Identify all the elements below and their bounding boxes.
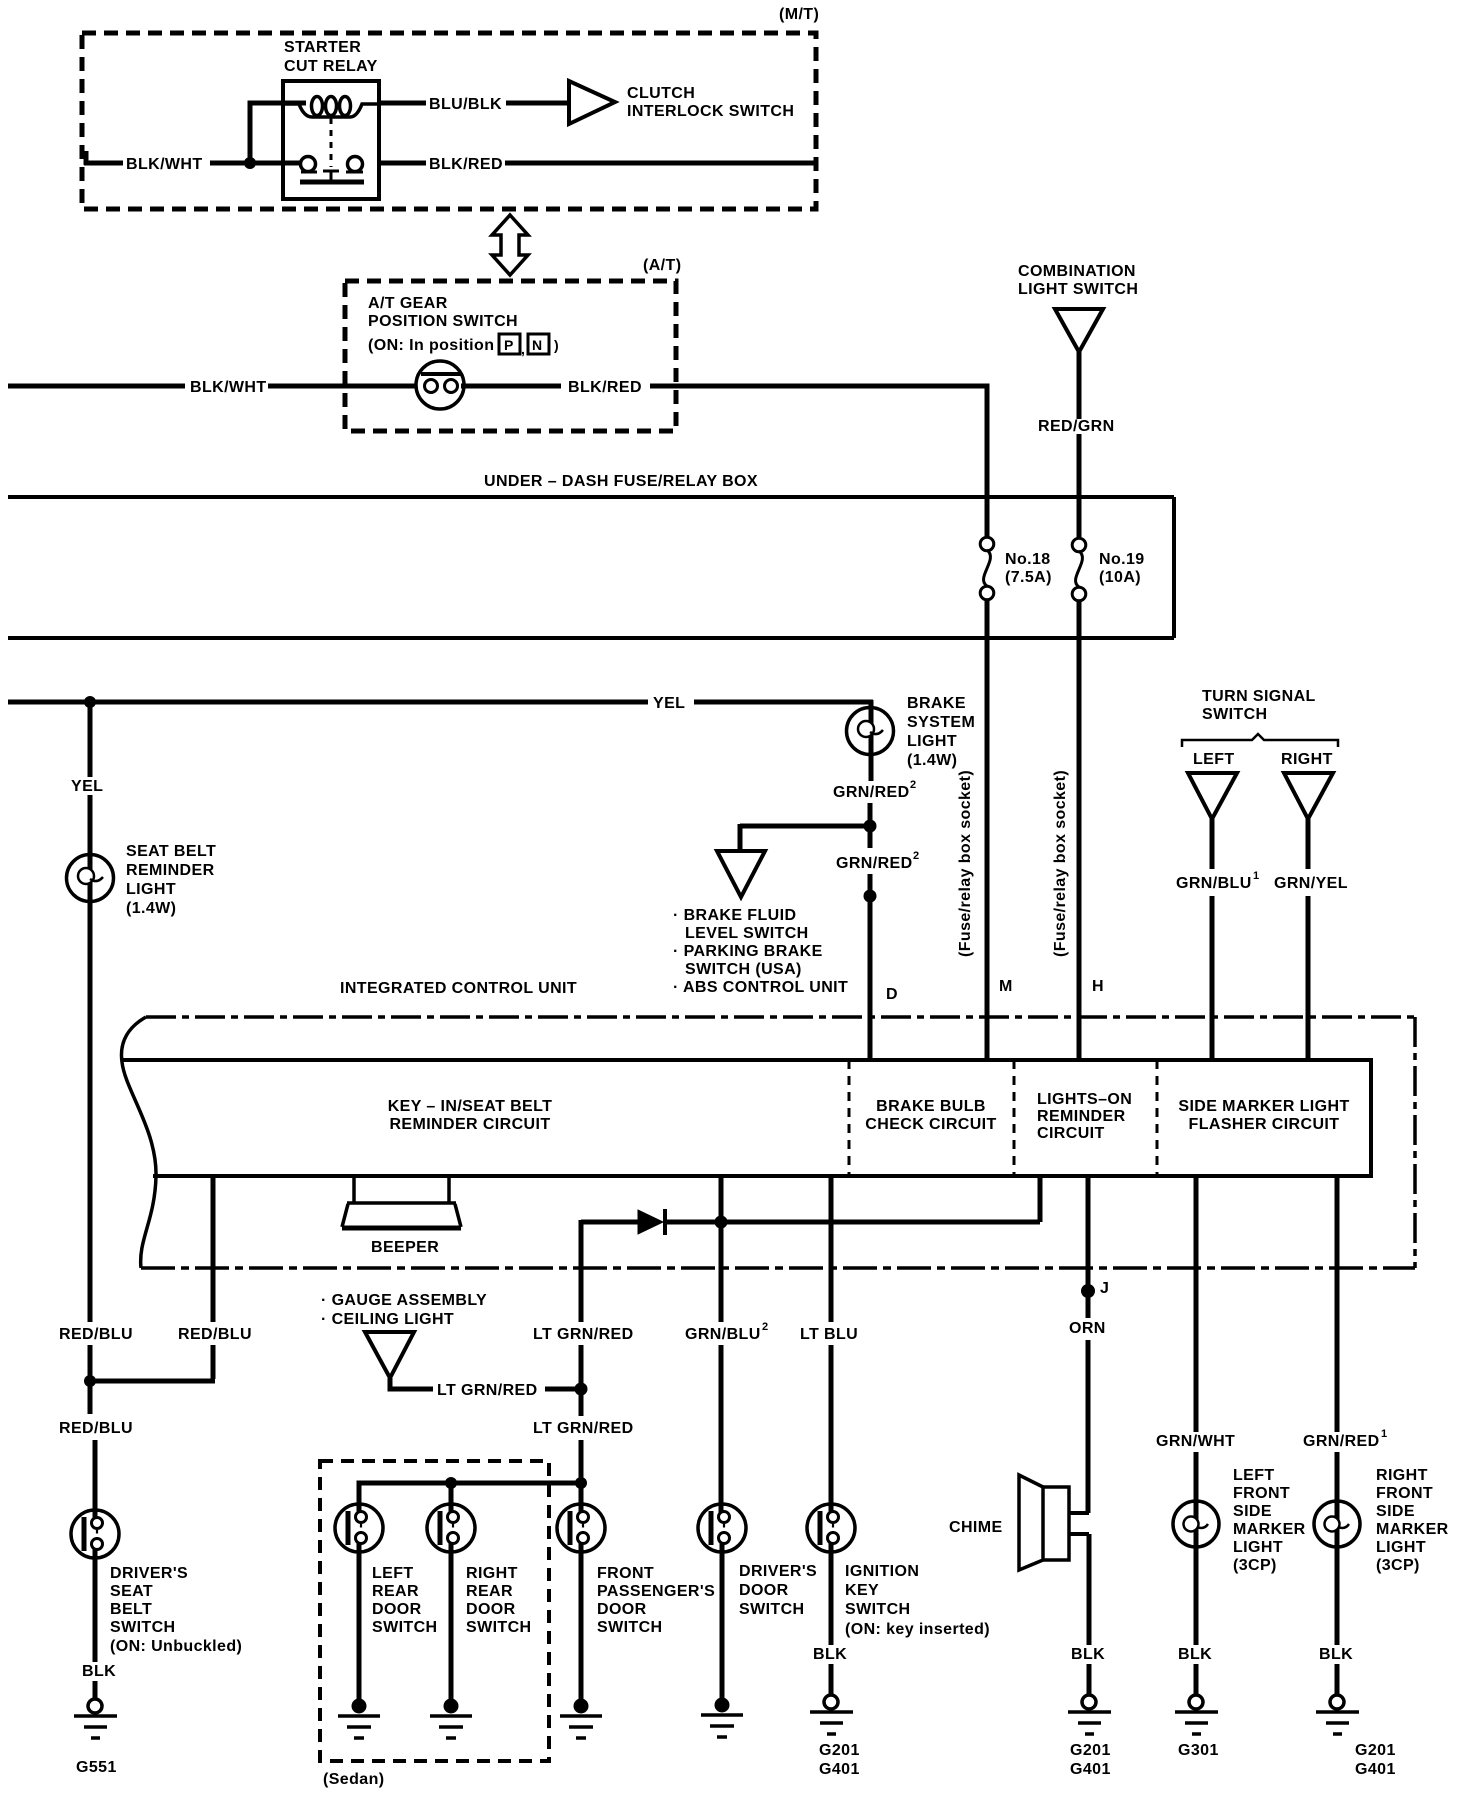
svg-text:LT GRN/RED: LT GRN/RED [437,1382,538,1399]
svg-text:SWITCH: SWITCH [466,1619,532,1636]
svg-text:RIGHT: RIGHT [1281,751,1333,768]
wire into seat belt switch [93,1440,98,1662]
svg-text:LIGHTS–ON: LIGHTS–ON [1037,1091,1132,1108]
svg-text:YEL: YEL [653,695,685,712]
label GRN/BLU 2 [685,1321,768,1343]
wire BLK/WHT to relay [84,161,302,166]
brake system light lamp [847,708,894,755]
svg-text:LIGHT SWITCH: LIGHT SWITCH [1018,281,1138,298]
svg-text:TURN SIGNAL: TURN SIGNAL [1202,688,1316,705]
label right rear door switch [466,1565,532,1636]
clutch interlock switch arrow connector [569,81,615,124]
label G201 G401 right marker [1355,1742,1396,1778]
svg-text:BLK: BLK [1071,1646,1105,1663]
wire RED/BLU left vertical [88,901,93,1381]
label LT GRN/RED horizontal [437,1382,538,1399]
label D [886,986,898,1003]
wire BLK seat belt switch lower [93,1681,98,1700]
svg-text:No.19: No.19 [1099,551,1145,568]
svg-text:A/T GEAR: A/T GEAR [368,295,448,312]
label driver's door switch [739,1563,817,1618]
wire BLK/WHT to A/T switch [8,384,417,389]
label brake system light [907,695,975,769]
svg-text:BLU/BLK: BLU/BLK [429,96,502,113]
label YEL horizontal [653,695,685,712]
ground G551 [74,1699,117,1738]
label GRN/BLU 1 [1176,870,1259,892]
label BLK seat belt [82,1663,116,1680]
wire YEL down to seat belt reminder light [88,702,93,903]
svg-text:(M/T): (M/T) [779,6,819,23]
svg-text:· GAUGE ASSEMBLY: · GAUGE ASSEMBLY [321,1292,487,1309]
brake fluid connector triangle [717,851,765,897]
M/T label [779,6,819,23]
svg-text:(Sedan): (Sedan) [323,1771,384,1788]
wire into driver's door switch [720,1539,725,1700]
label GRN/WHT [1156,1433,1235,1450]
node RED/BLU junction [84,1375,96,1387]
svg-text:· CEILING LIGHT: · CEILING LIGHT [321,1311,454,1328]
svg-text:REMINDER: REMINDER [126,862,215,879]
label key-in/seat belt reminder circuit [388,1098,553,1133]
svg-text:(ON: key inserted): (ON: key inserted) [845,1621,990,1638]
svg-text:INTEGRATED CONTROL UNIT: INTEGRATED CONTROL UNIT [340,980,577,997]
label BLK right marker [1319,1646,1353,1663]
svg-text:): ) [554,337,559,353]
label GRN/RED 1 [1303,1428,1387,1450]
node bus junction right rear [445,1477,457,1489]
label YEL vertical [71,778,103,795]
wire up to lights-on circuit [1038,1176,1043,1222]
integrated control unit dash-dot border [141,1017,1415,1268]
wire right rear switch drop [449,1483,454,1518]
label BLK ignition [813,1646,847,1663]
label BLK/RED (A/T) [568,379,642,396]
svg-text:BLK: BLK [1319,1646,1353,1663]
wire branch to brake fluid connector [740,824,870,850]
svg-text:LIGHT: LIGHT [907,733,957,750]
svg-text:CLUTCH: CLUTCH [627,85,695,102]
svg-text:SYSTEM: SYSTEM [907,714,975,731]
label RIGHT [1281,751,1333,768]
label (Sedan) [323,1771,384,1788]
svg-text:FRONT: FRONT [1233,1485,1290,1502]
label No.18 (7.5A) [1005,551,1052,586]
svg-text:(1.4W): (1.4W) [126,900,176,917]
wire GRN/YEL from right turn signal [1306,819,1311,1060]
wire BLK/RED from relay contact [379,161,816,166]
node bus junction passenger [575,1477,587,1489]
label A/T gear position switch [368,295,518,354]
label G201 G401 chime [1070,1742,1111,1778]
right front side marker light lamp [1314,1501,1360,1547]
label J [1100,1280,1109,1297]
wire RED/GRN [1077,352,1082,539]
svg-text:RED/BLU: RED/BLU [178,1326,252,1343]
wire into left rear door switch [357,1539,362,1701]
svg-text:G201: G201 [1355,1742,1396,1759]
svg-text:H: H [1092,978,1104,995]
node GRN/RED junction [864,820,877,833]
svg-text:GRN/RED: GRN/RED [1303,1433,1380,1450]
svg-text:D: D [886,986,898,1003]
N box [528,334,559,354]
node YEL junction [84,696,96,708]
svg-text:FLASHER CIRCUIT: FLASHER CIRCUIT [1189,1116,1340,1133]
svg-text:GRN/BLU: GRN/BLU [685,1326,761,1343]
starter cut relay coil [285,97,377,118]
label fuse/relay box socket left [957,770,974,957]
wire BLK ignition lower [829,1664,834,1696]
beeper symbol [342,1176,461,1228]
wire GRN/RED from brake system light [870,700,871,1060]
front passenger's door switch [557,1504,605,1552]
wire LT GRN/RED main vertical [579,1220,584,1416]
label TURN SIGNAL SWITCH [1202,688,1316,723]
separator dashes 1 [848,1060,851,1176]
sedan dashed box [320,1461,549,1761]
svg-text:(ON: In position: (ON: In position [368,337,494,354]
label GRN/RED 2 upper [833,779,916,801]
node diode junction [715,1216,728,1229]
svg-text:,: , [521,341,525,357]
svg-text:DOOR: DOOR [372,1601,422,1618]
starter cut relay armature dashed link [323,118,339,182]
label left rear door switch [372,1565,438,1636]
svg-text:(Fuse/relay box socket): (Fuse/relay box socket) [1052,770,1069,957]
svg-text:KEY – IN/SEAT BELT: KEY – IN/SEAT BELT [388,1098,553,1115]
label LT BLU [800,1326,858,1343]
svg-text:(Fuse/relay box socket): (Fuse/relay box socket) [957,770,974,957]
svg-text:BLK/WHT: BLK/WHT [190,379,267,396]
label lights-on reminder circuit [1037,1091,1132,1142]
label UNDER-DASH FUSE/RELAY BOX [484,473,758,490]
chime terminal stubs [1069,1513,1089,1534]
node junction at relay input [244,157,256,169]
svg-text:DOOR: DOOR [739,1582,789,1599]
ground driver's door switch [701,1698,743,1738]
label INTEGRATED CONTROL UNIT [340,980,577,997]
svg-text:LEFT: LEFT [372,1565,414,1582]
right rear door switch [427,1504,475,1552]
svg-text:YEL: YEL [71,778,103,795]
svg-text:LT GRN/RED: LT GRN/RED [533,1420,634,1437]
svg-text:SWITCH: SWITCH [110,1619,176,1636]
svg-text:LIGHT: LIGHT [1233,1539,1283,1556]
svg-text:J: J [1100,1280,1109,1297]
svg-text:G201: G201 [1070,1742,1111,1759]
svg-text:BLK: BLK [813,1646,847,1663]
label driver's seat belt switch [110,1565,242,1655]
wire into right rear door switch [449,1539,454,1701]
svg-text:RIGHT: RIGHT [466,1565,518,1582]
label No.19 (10A) [1099,551,1145,586]
svg-text:1: 1 [1381,1428,1387,1440]
door switch bus wire [359,1483,581,1518]
wire LT BLU to ignition key switch [829,1176,834,1517]
label LEFT [1193,751,1235,768]
svg-text:P: P [504,337,513,353]
wire ORN from lights-on circuit [1086,1176,1091,1513]
wire BLK/WHT start tick [84,151,89,165]
label LT GRN/RED upper [533,1326,634,1343]
svg-text:FRONT: FRONT [1376,1485,1433,1502]
wire LT GRN/RED from gauge connector [390,1378,581,1389]
svg-text:· PARKING BRAKE: · PARKING BRAKE [673,943,823,960]
wire BLU/BLK from coil [379,101,567,106]
svg-text:M: M [999,978,1013,995]
svg-text:G201: G201 [819,1742,860,1759]
svg-text:UNDER – DASH FUSE/RELAY BOX: UNDER – DASH FUSE/RELAY BOX [484,473,758,490]
node J [1081,1284,1095,1298]
svg-text:GRN/RED: GRN/RED [833,784,910,801]
svg-text:BLK/WHT: BLK/WHT [126,156,203,173]
turn signal right connector triangle [1284,773,1333,819]
svg-text:REAR: REAR [372,1583,419,1600]
svg-text:G551: G551 [76,1759,117,1776]
svg-text:(10A): (10A) [1099,569,1141,586]
integrated control unit torn left edge [121,1017,156,1268]
label BLK/RED (M/T) [429,156,503,173]
label BLU/BLK [429,96,502,113]
svg-text:LEFT: LEFT [1193,751,1235,768]
ground right rear door switch [430,1699,472,1739]
starter cut relay box [283,81,379,199]
wire BLK chime [1087,1534,1092,1696]
starter cut relay movable contact bar [300,180,364,185]
label right front side marker light [1376,1467,1449,1574]
svg-text:RED/BLU: RED/BLU [59,1420,133,1437]
ground ignition G201/G401 [810,1695,853,1734]
wire from fuse No.19 down to node H [1077,600,1082,1060]
label H [1092,978,1104,995]
svg-text:2: 2 [910,779,916,791]
label brake fluid list [673,907,848,996]
double arrow between M/T and A/T [492,215,528,275]
label BLK left marker [1178,1646,1212,1663]
svg-text:REMINDER: REMINDER [1037,1108,1126,1125]
label RED/BLU right [178,1326,252,1343]
label GRN/RED 2 lower [836,850,919,872]
svg-text:GRN/RED: GRN/RED [836,855,913,872]
label M [999,978,1013,995]
svg-text:POSITION SWITCH: POSITION SWITCH [368,313,518,330]
svg-text:PASSENGER'S: PASSENGER'S [597,1583,715,1600]
wire RED/BLU from key-in circuit [88,1176,215,1381]
svg-text:ORN: ORN [1069,1320,1106,1337]
svg-text:(1.4W): (1.4W) [907,752,957,769]
svg-text:GRN/WHT: GRN/WHT [1156,1433,1235,1450]
seat belt reminder light lamp [67,855,114,902]
svg-text:DRIVER'S: DRIVER'S [110,1565,188,1582]
svg-text:MARKER: MARKER [1233,1521,1306,1538]
svg-text:CHIME: CHIME [949,1519,1003,1536]
svg-text:RED/BLU: RED/BLU [59,1326,133,1343]
diode [638,1209,665,1235]
starter cut relay label [284,39,378,75]
label ORN [1069,1320,1106,1337]
svg-text:REAR: REAR [466,1583,513,1600]
svg-text:LT BLU: LT BLU [800,1326,858,1343]
fuse No.19 [1072,538,1086,601]
svg-text:BRAKE: BRAKE [907,695,966,712]
svg-text:FRONT: FRONT [597,1565,654,1582]
label ignition key switch [845,1563,990,1638]
svg-text:SWITCH (USA): SWITCH (USA) [685,961,802,978]
label RED/GRN [1038,418,1115,435]
A/T switch symbol [416,361,464,409]
starter cut relay contacts [301,157,364,173]
svg-text:LEVEL SWITCH: LEVEL SWITCH [685,925,809,942]
svg-text:2: 2 [762,1321,768,1333]
svg-text:SWITCH: SWITCH [845,1601,911,1618]
label COMBINATION LIGHT SWITCH [1018,263,1138,298]
ground front passenger door switch [560,1699,602,1739]
svg-text:LIGHT: LIGHT [126,881,176,898]
node terminal dot on D wire [864,890,877,903]
svg-text:CHECK CIRCUIT: CHECK CIRCUIT [865,1116,996,1133]
svg-text:BLK: BLK [82,1663,116,1680]
M/T dashed enclosure box [82,33,816,209]
label G301 [1178,1742,1219,1759]
label side marker light flasher circuit [1178,1098,1349,1133]
ground left rear door switch [338,1699,380,1739]
svg-text:GRN/BLU: GRN/BLU [1176,875,1252,892]
svg-text:(A/T): (A/T) [643,257,681,274]
label RED/BLU left [59,1326,133,1343]
wire GRN/WHT from side marker circuit [1194,1176,1199,1502]
svg-text:(3CP): (3CP) [1376,1557,1420,1574]
label front passenger's door switch [597,1565,715,1636]
wire YEL horizontal [8,700,873,705]
svg-text:G401: G401 [819,1761,860,1778]
svg-text:REMINDER CIRCUIT: REMINDER CIRCUIT [389,1116,550,1133]
label BEEPER [371,1239,439,1256]
label CLUTCH INTERLOCK SWITCH [627,85,794,120]
left front side marker light lamp [1173,1501,1219,1547]
svg-text:RIGHT: RIGHT [1376,1467,1428,1484]
label CHIME [949,1519,1003,1536]
gauge assembly connector triangle [365,1332,414,1378]
svg-text:BELT: BELT [110,1601,152,1618]
svg-text:IGNITION: IGNITION [845,1563,919,1580]
svg-text:SWITCH: SWITCH [597,1619,663,1636]
wire GRN/BLU from left turn signal [1210,819,1215,1060]
ignition key switch [807,1504,855,1552]
svg-text:LT GRN/RED: LT GRN/RED [533,1326,634,1343]
separator dashes 3 [1156,1060,1159,1176]
svg-text:LIGHT: LIGHT [1376,1539,1426,1556]
label brake bulb check circuit [865,1098,996,1133]
svg-text:SWITCH: SWITCH [739,1601,805,1618]
svg-text:DRIVER'S: DRIVER'S [739,1563,817,1580]
svg-text:G401: G401 [1070,1761,1111,1778]
diode wire horizontal [581,1220,1040,1225]
svg-text:COMBINATION: COMBINATION [1018,263,1136,280]
svg-text:No.18: No.18 [1005,551,1051,568]
svg-text:SWITCH: SWITCH [372,1619,438,1636]
A/T label [643,257,681,274]
svg-text:DOOR: DOOR [466,1601,516,1618]
svg-text:(ON: Unbuckled): (ON: Unbuckled) [110,1638,242,1655]
wire BLK right marker [1335,1502,1340,1696]
label left front side marker light [1233,1467,1306,1574]
svg-text:RED/GRN: RED/GRN [1038,418,1115,435]
svg-text:CIRCUIT: CIRCUIT [1037,1125,1105,1142]
label seat belt reminder light [126,843,216,917]
svg-text:SEAT BELT: SEAT BELT [126,843,216,860]
turn signal switch bracket [1182,734,1338,747]
chime symbol [1019,1475,1069,1570]
label BLK/WHT (M/T) [126,156,203,173]
label G551 [76,1759,117,1776]
wire BLK left marker [1194,1502,1199,1696]
driver's door switch [698,1504,746,1552]
svg-text:G401: G401 [1355,1761,1396,1778]
svg-text:BRAKE BULB: BRAKE BULB [876,1098,986,1115]
label fuse/relay box socket right [1052,770,1069,957]
svg-text:SWITCH: SWITCH [1202,706,1268,723]
svg-text:STARTER: STARTER [284,39,361,56]
fuse No.18 [980,537,994,600]
wire BLK/RED from A/T switch [461,386,987,538]
wire RED/BLU to seat belt switch [88,1381,93,1414]
svg-text:N: N [532,337,542,353]
svg-text:CUT RELAY: CUT RELAY [284,58,378,75]
node LT GRN/RED junction [575,1383,588,1396]
svg-text:INTERLOCK SWITCH: INTERLOCK SWITCH [627,103,794,120]
svg-text:1: 1 [1253,870,1259,882]
integrated control unit inner box [122,1060,1371,1176]
svg-text:G301: G301 [1178,1742,1219,1759]
label BLK chime [1071,1646,1105,1663]
svg-text:SIDE MARKER LIGHT: SIDE MARKER LIGHT [1178,1098,1349,1115]
wire into ignition key switch [829,1539,834,1645]
label G201 G401 ignition [819,1742,860,1778]
label BLK/WHT (A/T) [190,379,267,396]
svg-text:LEFT: LEFT [1233,1467,1275,1484]
svg-text:(3CP): (3CP) [1233,1557,1277,1574]
svg-text:MARKER: MARKER [1376,1521,1449,1538]
left rear door switch [335,1504,383,1552]
combination light switch connector triangle [1055,309,1103,352]
svg-text:BEEPER: BEEPER [371,1239,439,1256]
svg-text:SEAT: SEAT [110,1583,153,1600]
svg-text:2: 2 [913,850,919,862]
svg-text:KEY: KEY [845,1582,879,1599]
P box [499,334,525,357]
svg-text:SIDE: SIDE [1233,1503,1272,1520]
svg-text:· ABS CONTROL UNIT: · ABS CONTROL UNIT [673,979,848,996]
wire GRN/RED to right side marker [1335,1176,1340,1502]
svg-text:BLK/RED: BLK/RED [568,379,642,396]
ground chime G201/G401 [1068,1695,1111,1734]
svg-text:GRN/YEL: GRN/YEL [1274,875,1348,892]
svg-text:BLK: BLK [1178,1646,1212,1663]
A/T gear position switch dashed box [345,281,676,431]
svg-text:SIDE: SIDE [1376,1503,1415,1520]
wire into front passenger's door switch [579,1440,584,1701]
svg-text:DOOR: DOOR [597,1601,647,1618]
ground right marker G201/G401 [1316,1695,1359,1734]
under-dash fuse/relay box outline [8,497,1174,638]
label RED/BLU lower [59,1420,133,1437]
separator dashes 2 [1013,1060,1016,1176]
svg-text:BLK/RED: BLK/RED [429,156,503,173]
driver's seat belt switch [71,1510,119,1558]
wire GRN/BLU to driver's door switch [719,1176,724,1517]
ground G301 [1175,1695,1218,1734]
